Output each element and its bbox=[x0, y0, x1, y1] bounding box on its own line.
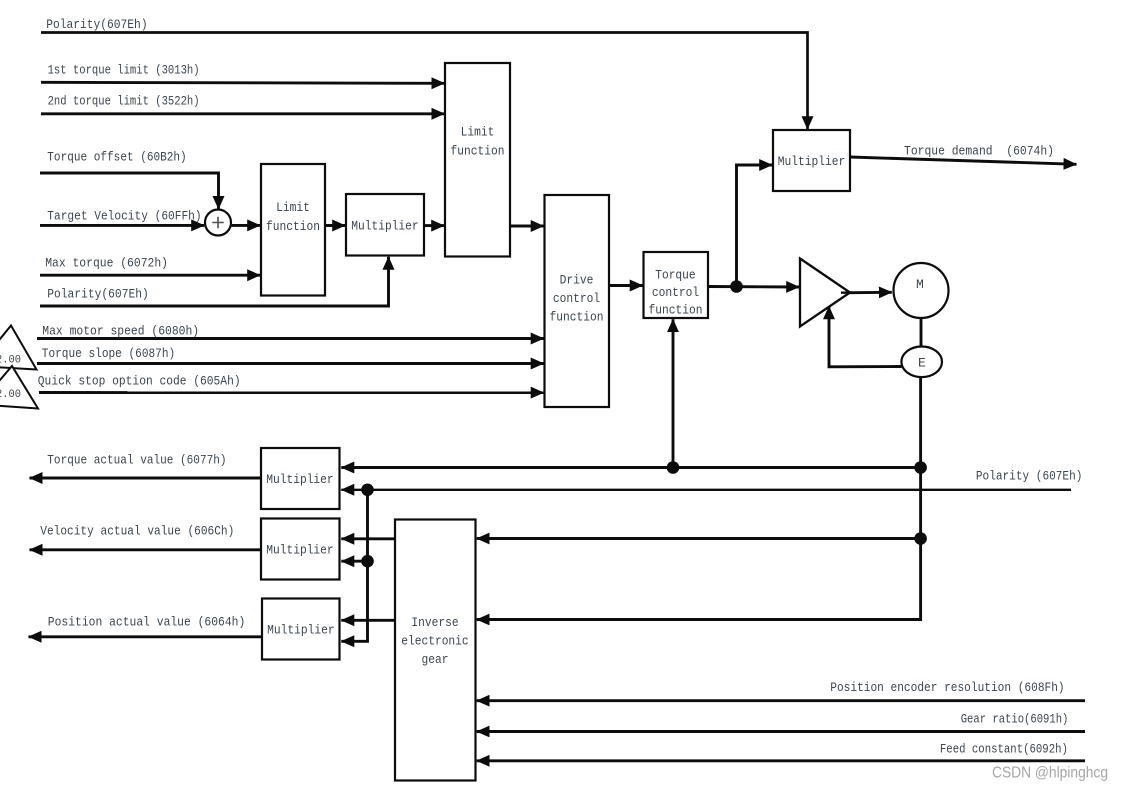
svg-text:control: control bbox=[553, 291, 600, 306]
svg-text:Inverse: Inverse bbox=[411, 615, 458, 630]
svg-text:Torque: Torque bbox=[655, 268, 696, 283]
svg-text:Multiplier: Multiplier bbox=[351, 219, 419, 234]
svg-text:control: control bbox=[652, 285, 699, 300]
svg-text:Polarity(607Eh): Polarity(607Eh) bbox=[46, 17, 147, 32]
svg-text:Drive: Drive bbox=[560, 273, 594, 288]
svg-text:CSDN @hlpinghcg: CSDN @hlpinghcg bbox=[992, 765, 1108, 782]
svg-text:Torque demand (6074h): Torque demand (6074h) bbox=[904, 144, 1054, 159]
svg-text:Torque slope (6087h): Torque slope (6087h) bbox=[42, 346, 175, 361]
svg-text:Quick stop option code (605Ah): Quick stop option code (605Ah) bbox=[38, 374, 241, 389]
svg-text:function: function bbox=[550, 309, 604, 324]
svg-text:M: M bbox=[916, 277, 924, 292]
svg-text:gear: gear bbox=[422, 652, 449, 667]
svg-text:Torque offset (60B2h): Torque offset (60B2h) bbox=[47, 150, 186, 165]
svg-text:Target Velocity (60FFh): Target Velocity (60FFh) bbox=[47, 209, 201, 224]
svg-text:Velocity actual value (606Ch): Velocity actual value (606Ch) bbox=[40, 524, 234, 539]
svg-text:2nd torque limit (3522h): 2nd torque limit (3522h) bbox=[48, 94, 200, 109]
svg-text:Max motor speed (6080h): Max motor speed (6080h) bbox=[42, 324, 199, 339]
svg-text:function: function bbox=[649, 303, 703, 318]
svg-text:E: E bbox=[918, 356, 926, 371]
svg-text:Torque actual value (6077h): Torque actual value (6077h) bbox=[47, 453, 226, 468]
svg-text:function: function bbox=[451, 144, 505, 159]
svg-text:Max torque (6072h): Max torque (6072h) bbox=[45, 256, 168, 271]
svg-text:Limit: Limit bbox=[461, 125, 495, 140]
svg-text:1st torque limit (3013h): 1st torque limit (3013h) bbox=[48, 63, 200, 78]
svg-text:Multiplier: Multiplier bbox=[778, 154, 846, 169]
svg-text:2.00: 2.00 bbox=[0, 355, 21, 367]
svg-text:Multiplier: Multiplier bbox=[266, 472, 334, 487]
svg-text:Position actual value (6064h): Position actual value (6064h) bbox=[48, 615, 246, 630]
svg-text:Multiplier: Multiplier bbox=[267, 623, 335, 638]
svg-text:Gear ratio(6091h): Gear ratio(6091h) bbox=[961, 712, 1069, 727]
svg-text:2.00: 2.00 bbox=[0, 389, 21, 401]
svg-text:function: function bbox=[266, 219, 320, 234]
svg-text:Polarity(607Eh): Polarity(607Eh) bbox=[47, 287, 149, 302]
svg-text:Position encoder resolution (6: Position encoder resolution (608Fh) bbox=[830, 680, 1064, 695]
svg-text:Polarity (607Eh): Polarity (607Eh) bbox=[976, 469, 1083, 484]
svg-text:Feed constant(6092h): Feed constant(6092h) bbox=[940, 742, 1068, 757]
svg-text:electronic: electronic bbox=[401, 634, 469, 649]
svg-text:Multiplier: Multiplier bbox=[266, 543, 334, 558]
svg-text:Limit: Limit bbox=[276, 200, 310, 215]
